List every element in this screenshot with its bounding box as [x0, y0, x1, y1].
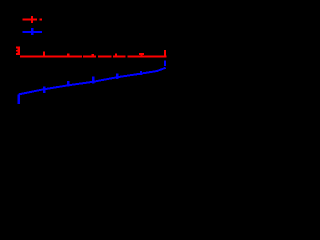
- red point 2: error tick: [43, 52, 45, 58]
- blue series: rising solid line: [19, 68, 166, 95]
- red point 3: error tick: [67, 54, 69, 58]
- blue point 6: error tick: [140, 71, 142, 75]
- red point 7: tall error bar: [164, 50, 166, 57]
- blue point 5: error tick: [116, 73, 118, 79]
- blue point 3: error tick: [67, 81, 69, 86]
- legend entry 1: red plus marker: [31, 16, 33, 23]
- red series: dashed horizontal line: [20, 55, 167, 57]
- blue point 2: error tick: [43, 87, 45, 93]
- red point 1: error bar with caps and plus marker: [16, 47, 20, 55]
- red point 6: error tick with cap: [139, 53, 144, 57]
- blue point 4: error tick: [92, 77, 94, 84]
- blue point 1: tall lower error bar: [18, 94, 20, 104]
- blue point 7: upper error bar: [164, 61, 166, 67]
- legend entry 1: red dashed line sample: [22, 18, 42, 20]
- red point 5: error tick: [115, 53, 117, 57]
- legend entry 2: blue solid line sample: [22, 31, 42, 33]
- legend entry 2: blue plus marker: [31, 28, 33, 35]
- red point 4: error tick: [92, 54, 95, 57]
